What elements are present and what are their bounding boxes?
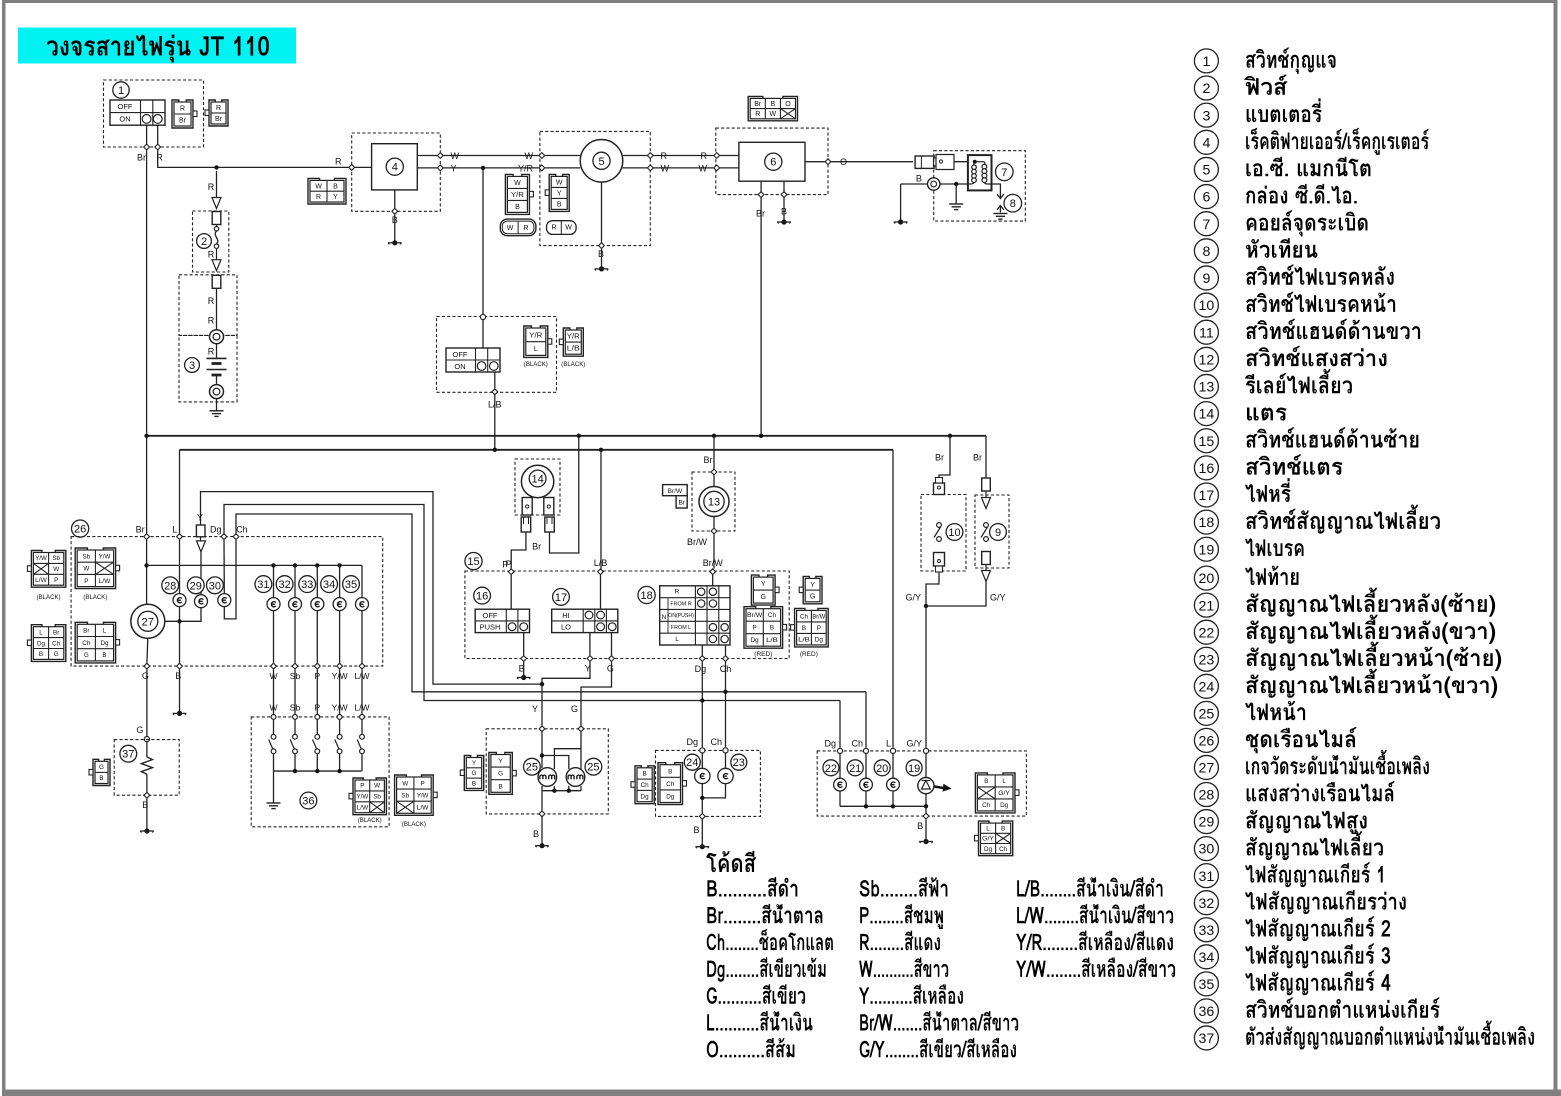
meter 26 number	[72, 520, 89, 537]
wire Y jog to switch	[542, 662, 590, 684]
svg-text:25: 25	[1199, 706, 1215, 722]
wire Y row to meter	[201, 492, 543, 684]
svg-text:Ch: Ch	[82, 640, 91, 647]
svg-text:21: 21	[1199, 598, 1215, 614]
connector Y G inner	[751, 575, 775, 605]
light switch connector Y/R L	[524, 326, 548, 357]
horn 14 number	[529, 470, 546, 487]
lamp 32 number	[276, 576, 293, 593]
svg-text:G: G	[54, 651, 59, 658]
svg-text:30: 30	[209, 580, 221, 592]
legend item 17 circle	[1194, 483, 1218, 507]
legend item 37 text	[1246, 1020, 1534, 1049]
legend item 1 text	[1246, 48, 1335, 74]
legend item 28 circle	[1194, 783, 1218, 807]
svg-text:B: B	[557, 201, 562, 208]
svg-text:W: W	[83, 566, 89, 573]
nodes W Sb P Y/W L/W	[271, 663, 277, 669]
junctions	[552, 789, 556, 793]
wire to chassis ground	[273, 771, 275, 803]
svg-text:12: 12	[1199, 352, 1215, 368]
svg-text:P: P	[360, 783, 364, 790]
wire O to coil	[954, 161, 975, 163]
svg-text:31: 31	[1199, 869, 1215, 885]
coil 7 dashed box	[934, 151, 1026, 221]
node G	[609, 656, 615, 662]
wire Ch down to front signal 23	[725, 692, 727, 747]
wire bulb29 bottom to gauge	[165, 608, 201, 622]
svg-text:L/B: L/B	[766, 637, 778, 644]
coil top link	[975, 161, 984, 163]
wire W into magneto	[545, 155, 580, 157]
node Ch	[723, 748, 728, 753]
horn switch 16 table	[475, 609, 529, 632]
legend item 7 text	[1247, 210, 1368, 236]
svg-text:B: B	[802, 625, 806, 632]
headlight bulb right	[566, 768, 585, 787]
colour code Br/W	[860, 1011, 1018, 1031]
legend item 15 circle	[1194, 429, 1218, 453]
svg-text:L: L	[172, 524, 177, 534]
svg-text:29: 29	[1199, 815, 1215, 831]
svg-text:G: G	[761, 594, 766, 601]
svg-text:Br: Br	[137, 153, 146, 163]
svg-text:(BLACK): (BLACK)	[402, 821, 426, 828]
svg-text:L: L	[675, 636, 679, 643]
junction bus1 relay branch	[712, 434, 716, 438]
svg-text:24: 24	[686, 757, 698, 769]
svg-text:B: B	[771, 101, 776, 108]
svg-text:G: G	[810, 593, 815, 600]
turn indicator bulb 30	[218, 594, 231, 607]
svg-text:Ch: Ch	[720, 664, 732, 674]
key switch 1 contact table	[110, 100, 165, 125]
svg-text:L: L	[534, 346, 538, 353]
svg-text:22: 22	[1199, 625, 1215, 641]
svg-text:LO: LO	[561, 623, 571, 632]
svg-text:Ch: Ch	[666, 781, 675, 788]
svg-text:B: B	[916, 174, 922, 184]
wire to resistor	[146, 742, 148, 757]
headlight 25 dashed box	[486, 729, 608, 814]
legend item 9 circle	[1194, 266, 1218, 290]
svg-text:L: L	[986, 825, 990, 832]
legend item 7 circle	[1194, 212, 1218, 236]
gear switch 36 dashed box	[251, 717, 389, 827]
battery ring terminal	[210, 330, 224, 344]
svg-text:G: G	[607, 663, 614, 673]
svg-text:L/B: L/B	[798, 636, 810, 643]
lamp 30 number	[207, 577, 224, 594]
junction Y headlight	[540, 682, 544, 686]
CDI 6 dashed box	[716, 128, 828, 195]
battery ring terminal lower	[210, 385, 224, 399]
junction Y/R branch	[481, 166, 485, 170]
legend item 8 circle	[1194, 239, 1218, 263]
svg-text:(BLACK): (BLACK)	[83, 594, 107, 601]
svg-text:OFF: OFF	[483, 611, 498, 620]
svg-text:(BLACK): (BLACK)	[524, 361, 548, 368]
wire B from rectifier	[394, 190, 396, 208]
svg-text:Y: Y	[557, 190, 562, 197]
svg-text:19: 19	[1199, 542, 1215, 558]
svg-text:OFF: OFF	[118, 102, 133, 111]
switch 15 number	[465, 553, 482, 570]
wire Ch to bulb 21	[865, 754, 867, 779]
legend item 21 circle	[1194, 593, 1218, 617]
node Ch meter	[233, 534, 239, 540]
battery 3 number	[185, 358, 200, 373]
rear brake male terminal	[982, 478, 991, 491]
wire B to ground	[783, 198, 785, 222]
page frame border	[2, 0, 1558, 3]
horn terminals	[522, 498, 532, 516]
wire R battery lead	[216, 288, 218, 330]
svg-text:B: B	[693, 825, 699, 835]
node Br/W relay	[711, 528, 717, 534]
node L meter	[177, 534, 183, 540]
sender ground	[144, 828, 149, 833]
svg-text:Y/R: Y/R	[511, 192, 524, 199]
colour code P	[860, 904, 943, 929]
svg-text:R: R	[701, 151, 708, 161]
svg-text:Dg: Dg	[100, 640, 109, 647]
headlight connector Y G B small	[464, 756, 483, 791]
svg-text:11: 11	[1199, 325, 1214, 341]
svg-text:13: 13	[1199, 380, 1215, 396]
fuel gauge 27 body	[131, 604, 165, 638]
wire Y meter connector	[196, 525, 205, 537]
wire B out rear	[925, 806, 927, 813]
legend item 29 text	[1246, 810, 1366, 834]
neutral bulb 32	[289, 598, 302, 611]
node Ch	[863, 748, 868, 753]
node Br relay	[711, 469, 717, 475]
svg-text:B: B	[668, 768, 672, 775]
legend item 6 text	[1246, 184, 1357, 204]
legend item 25 text	[1245, 701, 1305, 720]
wire Br/W to switch 18	[713, 517, 715, 528]
svg-text:PUSH: PUSH	[480, 623, 501, 632]
legend item 13 text	[1245, 369, 1352, 393]
meter connector BLACK large	[75, 548, 115, 589]
legend item 34 text	[1245, 943, 1390, 968]
svg-text:W: W	[514, 180, 521, 187]
key switch connector R/Br	[172, 100, 193, 128]
svg-text:2: 2	[201, 236, 207, 248]
svg-text:Br/W: Br/W	[812, 613, 825, 620]
arrow	[982, 571, 991, 582]
svg-text:35: 35	[1199, 977, 1215, 993]
bus2 right corner down to tail light	[892, 450, 894, 748]
svg-text:W: W	[269, 703, 277, 713]
svg-text:Sb: Sb	[290, 703, 301, 713]
svg-text:27: 27	[142, 616, 154, 628]
svg-text:20: 20	[876, 763, 888, 775]
oval connector W R	[500, 219, 536, 236]
coil connector female	[934, 155, 955, 170]
front brake connector bottom	[934, 553, 945, 567]
connector W Y B	[549, 174, 569, 211]
svg-text:R: R	[675, 589, 680, 596]
svg-text:L: L	[886, 739, 891, 749]
wire Br from CDI	[760, 181, 762, 191]
legend item 25 circle	[1194, 701, 1218, 725]
svg-text:Br: Br	[136, 524, 145, 534]
fuse element	[216, 225, 218, 228]
legend item 11 circle	[1194, 320, 1218, 344]
svg-text:Ch: Ch	[52, 640, 61, 647]
wire L/B from bus2	[600, 450, 602, 569]
lamp 33 number	[299, 576, 316, 593]
gear connector BLACK inner	[353, 778, 386, 815]
legend item 14 circle	[1194, 402, 1218, 426]
brake light arrow	[935, 784, 952, 792]
wire to ground	[216, 399, 218, 411]
svg-text:G: G	[498, 771, 503, 778]
wire Ch row	[236, 514, 866, 692]
legend item 12 circle	[1194, 347, 1218, 371]
wire Dg down to rear signal 22	[839, 701, 841, 748]
junction bulb32	[293, 563, 297, 567]
connector W B R Y	[308, 178, 346, 204]
key switch 1 number	[113, 82, 129, 98]
junction bus2 light switch	[493, 448, 497, 452]
svg-text:28: 28	[164, 580, 176, 592]
sender resistor	[141, 757, 152, 774]
svg-text:G: G	[571, 704, 578, 714]
node Y	[587, 656, 593, 662]
front brake contact blade	[937, 523, 942, 528]
junction bus1 key	[144, 434, 148, 438]
legend item 2 text	[1244, 75, 1287, 95]
spark plug chassis ground	[993, 213, 1007, 215]
node G	[578, 726, 584, 732]
gear3 bulb 34	[333, 598, 346, 611]
CDI ground	[781, 219, 786, 224]
horn switch 16 number	[474, 587, 491, 604]
svg-text:Ch: Ch	[236, 524, 248, 534]
colour code Sb	[860, 877, 948, 897]
legend item 17 text	[1245, 478, 1290, 502]
battery male terminal	[212, 275, 221, 288]
signal 22 number	[823, 760, 839, 776]
junction bulb34	[337, 563, 341, 567]
coil winding bottom flares	[968, 182, 974, 185]
connector RED inner	[744, 607, 783, 649]
svg-text:G: G	[136, 725, 143, 735]
lamp 31 number	[255, 576, 272, 593]
wire Ch from signal switch	[725, 645, 727, 655]
light switch connector Y/R L/B	[563, 328, 583, 356]
node P	[508, 569, 514, 575]
svg-text:P: P	[502, 560, 508, 570]
svg-text:Y/R: Y/R	[529, 332, 542, 339]
gear switch common bus	[274, 770, 362, 772]
node B sender	[144, 792, 150, 798]
arrow	[982, 498, 991, 509]
svg-text:W: W	[699, 163, 708, 173]
colour code L	[707, 1011, 812, 1031]
gear1 bulb 31	[267, 598, 280, 611]
svg-text:31: 31	[257, 579, 269, 591]
node B headlight	[539, 811, 545, 817]
junction Ch front signal	[723, 690, 727, 694]
node L/B	[492, 389, 498, 395]
battery 3 dashed box lower	[179, 335, 237, 402]
crossover Y to right bulb	[542, 756, 569, 770]
svg-text:36: 36	[302, 795, 314, 807]
legend item 34 circle	[1194, 945, 1218, 969]
legend item 24 circle	[1194, 674, 1218, 698]
colour code Y/W	[1016, 957, 1175, 977]
wire B out	[701, 798, 703, 813]
legend item 11 text	[1246, 319, 1420, 339]
wire W out of magneto	[623, 167, 648, 169]
svg-text:28: 28	[1199, 788, 1215, 804]
svg-text:27: 27	[1199, 761, 1215, 777]
svg-text:L/W: L/W	[356, 805, 368, 812]
legend item 18 circle	[1194, 510, 1218, 534]
oval connector R W	[547, 221, 577, 235]
svg-text:(BLACK): (BLACK)	[37, 594, 61, 601]
wire B to ground	[523, 662, 525, 678]
legend item 26 circle	[1194, 728, 1218, 752]
svg-text:Br: Br	[704, 455, 713, 465]
legend item 36 circle	[1194, 999, 1218, 1023]
legend item 32 text	[1245, 890, 1405, 914]
colour code L/B	[1017, 877, 1162, 897]
svg-text:L/W: L/W	[354, 703, 369, 713]
rear connector big	[975, 773, 1015, 813]
rear ground	[923, 839, 928, 844]
wire B to ground	[541, 817, 543, 846]
wire B to ground	[179, 669, 181, 713]
wire P into horn switch	[510, 575, 512, 609]
svg-text:Sb: Sb	[52, 555, 60, 562]
rectifier 4 dashed box	[352, 133, 441, 211]
rear lights dashed box	[817, 751, 1026, 816]
svg-text:Dg: Dg	[984, 846, 993, 853]
legend item 33 circle	[1194, 918, 1218, 942]
svg-text:G/Y: G/Y	[982, 836, 995, 843]
wire B from CDI	[783, 181, 785, 191]
svg-text:N: N	[662, 614, 667, 621]
node W at magneto	[539, 153, 545, 159]
relay stepped connector Br/W	[663, 485, 688, 496]
horn spade pins	[521, 517, 531, 532]
wire B to ground	[701, 820, 703, 847]
svg-text:Br: Br	[179, 118, 187, 125]
svg-text:W: W	[451, 151, 460, 161]
svg-text:4: 4	[1202, 135, 1210, 151]
svg-text:Dg: Dg	[751, 637, 760, 644]
svg-text:R: R	[208, 347, 215, 357]
node L/B	[598, 569, 604, 575]
svg-text:G: G	[84, 652, 89, 659]
node R at CDI	[714, 153, 720, 159]
node Dg	[699, 656, 705, 662]
svg-text:Dg: Dg	[695, 664, 707, 674]
sender 37 dashed box	[114, 740, 179, 796]
headlight connector Y G B large	[489, 753, 512, 795]
wire Br from horn to bus1	[550, 436, 579, 553]
wire to battery plates	[216, 344, 218, 359]
svg-text:(RED): (RED)	[754, 651, 772, 658]
wire B to ground	[925, 819, 927, 841]
signal switch 18 table	[660, 586, 730, 645]
wire B to ground	[601, 249, 603, 269]
ground dot B	[898, 219, 903, 224]
wire B from horn switch	[523, 633, 525, 656]
wire Br to rear brake switch	[985, 436, 987, 483]
svg-text:33: 33	[1199, 923, 1215, 939]
svg-text:P: P	[817, 625, 821, 632]
node R	[647, 153, 653, 159]
wire L to bulb 20	[892, 754, 894, 779]
signal 23 number	[731, 754, 747, 770]
wire Dg from signal switch	[701, 645, 703, 655]
svg-text:B: B	[770, 625, 774, 632]
node Dg	[700, 748, 705, 753]
svg-text:4: 4	[392, 162, 398, 174]
legend item 16 circle	[1194, 456, 1218, 480]
legend item 2 circle	[1194, 76, 1218, 100]
svg-text:7: 7	[1202, 217, 1210, 233]
bus2 left corner down to meter	[179, 450, 181, 534]
svg-text:16: 16	[476, 591, 488, 603]
legend item 4 circle	[1194, 130, 1218, 154]
svg-text:Ch: Ch	[982, 802, 991, 809]
node B	[392, 208, 398, 214]
legend item 5 text	[1246, 157, 1370, 177]
svg-text:R: R	[551, 225, 556, 232]
svg-text:32: 32	[278, 579, 290, 591]
wires gear lamps to nodes	[273, 611, 275, 663]
svg-text:3: 3	[189, 360, 195, 372]
legend item 22 circle	[1194, 620, 1218, 644]
node G meter	[144, 663, 150, 669]
svg-text:Br: Br	[754, 101, 762, 108]
junction B front	[700, 796, 704, 800]
rear right signal bulb 21	[860, 778, 873, 791]
colour code B	[707, 877, 797, 897]
junction bus1 CDI	[759, 434, 763, 438]
svg-text:R: R	[523, 225, 528, 232]
svg-text:35: 35	[345, 579, 357, 591]
tail 20 number	[874, 760, 890, 776]
signal 24 number	[684, 754, 700, 770]
lamp 29 number	[187, 577, 204, 594]
wire resistor to node	[146, 774, 148, 792]
meter 26 dashed box	[71, 537, 383, 667]
meter bus corner to bulb35	[361, 565, 363, 597]
wire Y down to headlight	[541, 684, 543, 726]
wire to chassis ground	[955, 184, 957, 204]
front brake switch 10 dashed box	[921, 495, 966, 572]
svg-text:Y: Y	[197, 513, 203, 523]
node G sender	[144, 737, 149, 742]
svg-text:B: B	[533, 829, 539, 839]
fuse male terminal	[212, 212, 221, 225]
svg-text:10: 10	[1199, 298, 1215, 314]
svg-text:G/Y: G/Y	[998, 790, 1011, 797]
wire Br from key switch	[146, 125, 148, 147]
svg-text:Ch: Ch	[999, 846, 1008, 853]
gear connector BLACK outer	[395, 775, 434, 815]
colour code R	[860, 931, 940, 951]
front right signal bulb 24	[695, 768, 710, 783]
